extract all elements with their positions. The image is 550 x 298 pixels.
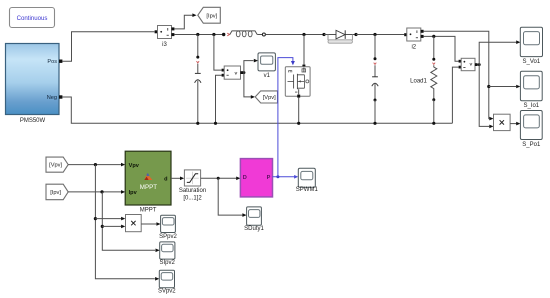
junction node Io branch [487,85,490,88]
wire i2 measurement to S_Io1 and product [424,31,490,118]
wire Ipv bus down to SIpv2 [102,192,155,250]
junction node Vpv bus [94,163,97,166]
wire to scope v1 [244,61,254,73]
wire product to scope S_Po1 [510,123,516,125]
current measurement i2 [404,28,423,50]
MOSFET Q1 [285,65,310,98]
svg-text:Load1: Load1 [410,79,427,85]
wire inductor to diode [265,34,324,36]
svg-text:Ipv: Ipv [129,190,138,196]
scope v1 [258,53,275,79]
svg-text:Pos: Pos [47,59,57,65]
svg-text:[Vpv]: [Vpv] [263,95,276,101]
svg-text:MPPT: MPPT [140,208,157,214]
scope S_Vo1 [520,27,542,65]
wire voltage measurement V1 minus to bottom rail [216,75,222,123]
junction node MOSFET drain tap [302,33,305,36]
goto tag [Vpv] [255,91,277,103]
wire rail tap to voltage measurement V1 plus [214,35,222,71]
svg-text:Continuous: Continuous [17,15,48,22]
svg-text:Neg: Neg [47,95,57,101]
voltage measurement block v1 source [222,66,244,79]
wire [Ipv] to MPPT Ipv input [68,191,121,193]
svg-text:SDuty1: SDuty1 [244,226,264,232]
wire Saturation to PWM D input [201,177,237,179]
load resistor Load1 [410,36,437,123]
wire Pos terminal to i3 input [62,32,154,62]
svg-text:S_Vo1: S_Vo1 [523,59,541,65]
svg-text:i2: i2 [411,44,416,50]
wire v2 minus to bottom rail [452,67,458,123]
junction node Ipv to product [101,225,104,228]
wire PWM P output to SPWM1 (blue) [273,176,295,178]
saturation block Saturation [0...1]2 [179,170,206,201]
red current direction mark at inductor [227,33,229,36]
wire v1 output junction [242,72,244,74]
junction node Load1 bottom [432,122,435,125]
junction node C2 bottom [373,122,376,125]
svg-text:Vpv: Vpv [129,163,140,169]
from tag [Ipv] [46,184,68,200]
product block (PV power) [126,215,142,232]
wire Io branch to scope S_Io1 [489,86,516,88]
junction node C1 bottom [196,122,199,125]
goto tag [Ipv] [198,7,221,23]
capacitor C1 (input) [195,35,201,124]
wire v2 output junction [478,64,480,66]
wire i2 output rail to v2 plus [424,36,459,61]
MPPT subsystem block [125,151,171,213]
wire product to scope SPpv2 [141,223,156,225]
svg-text:d: d [164,176,168,182]
PV array block PMS50W [6,44,63,124]
wire v2 output down to product [479,65,489,127]
diode D1 with snubber [322,30,357,43]
svg-text:SPpv2: SPpv2 [159,234,177,240]
svg-text:v1: v1 [264,73,271,79]
svg-text:PMS50W: PMS50W [20,118,46,124]
wire drain tap down to MOSFET [303,35,305,65]
junction node Load1 tap [432,35,435,38]
wire i3 measurement output to Goto [Ipv] [174,15,192,29]
wire Neg terminal to bottom rail [62,97,452,123]
svg-text:SPWM1: SPWM1 [296,187,319,193]
svg-text:Saturation: Saturation [179,188,206,194]
wire Ipv branch to product input [102,225,121,227]
wire MOSFET source to bottom rail [298,98,300,124]
wire PWM to MOSFET gate (blue) [278,58,293,177]
junction node V1 tap [212,33,215,36]
scope SVpv2 [158,270,176,294]
scope S_Po1 [520,111,542,149]
powergui block Continuous [10,8,55,28]
inductor left port node [222,33,225,36]
junction node C2 tap [373,33,376,36]
svg-text:S_Io1: S_Io1 [523,103,539,109]
voltage measurement v2 [459,58,478,70]
scope SPpv2 [159,215,177,240]
wire to scope S_Vo1 [479,42,516,64]
scope SDuty1 [244,207,264,232]
PWM generator block [240,159,272,197]
scope SIpv2 [160,242,176,266]
junction node duty branch [217,177,220,180]
junction node C1 tap [196,33,199,36]
svg-text:D: D [243,175,247,181]
svg-text:[Ipv]: [Ipv] [206,13,217,19]
svg-text:[Vpv]: [Vpv] [49,163,62,169]
svg-text:S_Po1: S_Po1 [522,142,541,148]
from tag [Vpv] [46,157,68,172]
wire top rail i3 to inductor [174,34,223,36]
svg-text:i3: i3 [162,42,167,48]
wire MPPT d output to Saturation [171,177,180,179]
svg-text:SIpv2: SIpv2 [160,260,176,266]
wire diode to i2 [356,34,404,36]
wire [Vpv] to MPPT Vpv input [68,164,121,166]
inductor L1 [230,31,266,37]
capacitor C2 (output) [372,35,378,124]
wire Vpv branch to product input [95,218,121,220]
junction node V1 minus bottom [214,122,217,125]
scope SPWM1 [296,168,319,193]
wire v1 output to goto [Vpv] [244,73,251,97]
svg-text:SVpv2: SVpv2 [158,288,176,294]
wire Vpv bus down to SVpv2 [95,165,154,279]
junction node PWM branch (blue) [276,175,279,178]
junction node MOSFET source bottom [297,122,300,125]
product block (output power) [494,114,511,130]
scope S_Io1 [520,71,542,109]
MATLAB logo icon [144,173,152,180]
wire duty branch to scope SDuty1 [218,178,242,215]
svg-text:[0...1]2: [0...1]2 [183,195,202,201]
svg-text:[Ipv]: [Ipv] [50,190,61,196]
junction node Ipv bus [100,190,103,193]
svg-text:MPPT: MPPT [140,184,157,191]
junction node Vpv to product [94,217,97,220]
svg-text:P: P [267,175,271,181]
current measurement i3 [155,26,175,48]
